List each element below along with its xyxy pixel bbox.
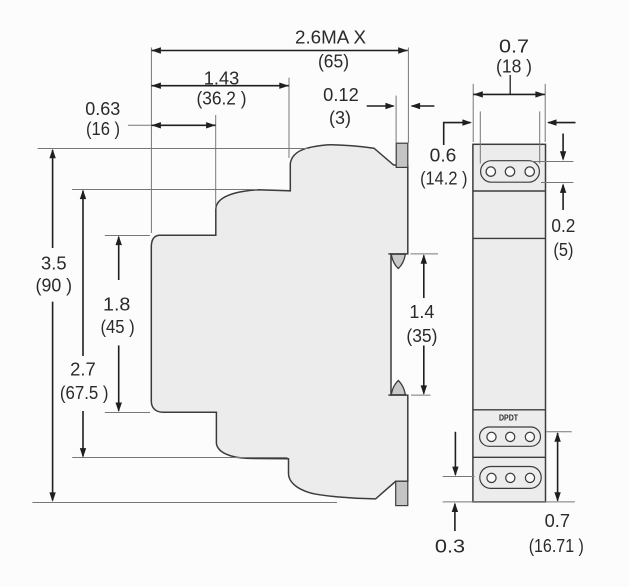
bottom DIN tab <box>396 481 408 505</box>
svg-text:3.5: 3.5 <box>41 254 67 274</box>
svg-text:(90 ): (90 ) <box>36 276 73 296</box>
extension line: side view left edge <box>150 48 152 234</box>
dimension 0.3 <box>454 432 456 475</box>
ref line: 0.2 bottom <box>541 182 574 184</box>
svg-text:(18 ): (18 ) <box>496 57 532 77</box>
extension line: 1.43 step <box>288 78 290 158</box>
svg-text:1.4: 1.4 <box>409 302 434 322</box>
extension line: side view right edge <box>407 48 409 144</box>
dimension 0.6 (14.2) leader <box>444 123 471 145</box>
svg-text:(16.71 ): (16.71 ) <box>529 536 584 556</box>
extension line: 0.63 step <box>215 115 217 209</box>
dimension 1.8 (45) <box>118 237 120 280</box>
svg-text:0.7: 0.7 <box>499 36 529 56</box>
svg-text:2.7: 2.7 <box>70 359 96 379</box>
ref line: overall bottom <box>32 502 337 504</box>
upper rail clip <box>391 254 405 268</box>
ref tick: 0.3 top <box>443 476 475 478</box>
dimension 1.4 (35) <box>423 255 425 298</box>
svg-text:0.7: 0.7 <box>545 511 570 531</box>
svg-text:1.8: 1.8 <box>103 295 130 315</box>
dimension 0.7 (18) <box>509 75 511 94</box>
DPDT upper block <box>480 427 541 446</box>
svg-text:0.3: 0.3 <box>435 537 465 557</box>
top terminal block <box>481 161 540 183</box>
svg-text:0.63: 0.63 <box>85 99 120 119</box>
svg-text:(16 ): (16 ) <box>86 119 120 139</box>
ref tick: 1.8 top <box>105 235 150 237</box>
side view body profile <box>151 145 408 499</box>
top DIN tab <box>396 143 408 167</box>
ref line: overall top (3.5 origin) <box>38 148 310 150</box>
dimension 0.63 <box>151 124 215 126</box>
DPDT lower block <box>480 467 541 489</box>
ref line: 2.7 bottom step <box>72 457 287 459</box>
svg-text:(67.5 ): (67.5 ) <box>60 383 109 403</box>
svg-text:(36.2 ): (36.2 ) <box>197 88 247 108</box>
ref tick: 1.4 bottom <box>411 394 431 396</box>
svg-text:(45 ): (45 ) <box>100 317 134 337</box>
svg-text:DPDT: DPDT <box>499 413 518 422</box>
front view body <box>473 144 546 502</box>
ref tick: 1.4 top <box>411 253 439 255</box>
dimension 3.5 (90) <box>52 150 54 248</box>
svg-text:(65): (65) <box>318 51 349 71</box>
ref line: 2.7 top step <box>72 189 258 191</box>
svg-text:(3): (3) <box>329 108 351 128</box>
dimension 0.2 (5) <box>562 134 564 160</box>
extension line: front view left edge <box>472 84 474 142</box>
svg-text:(14.2 ): (14.2 ) <box>420 168 467 188</box>
leader line: 0.63 label <box>128 124 151 126</box>
extension line: front view right edge <box>544 84 546 142</box>
svg-text:0.2: 0.2 <box>551 216 575 236</box>
ref tick: 0.7 (16.71) top <box>546 431 572 433</box>
dimension 0.12 <box>367 105 394 107</box>
ref line: front view bottom <box>443 501 575 503</box>
lower rail clip <box>391 381 405 395</box>
svg-text:0.6: 0.6 <box>430 146 457 166</box>
ref tick: 1.8 bottom <box>105 412 150 414</box>
extension line: terminal block left <box>479 111 481 163</box>
dimension 1.43 <box>151 85 288 87</box>
svg-text:0.12: 0.12 <box>323 85 359 105</box>
svg-text:1.43: 1.43 <box>204 68 240 88</box>
svg-text:(5): (5) <box>553 240 573 260</box>
ref line: 0.2 top <box>531 161 574 163</box>
svg-text:2.6MA X: 2.6MA X <box>295 27 366 47</box>
extension line: top tab left <box>395 96 397 143</box>
dimension 2.6MAX <box>151 50 407 52</box>
svg-text:(35): (35) <box>406 326 437 346</box>
dimension 2.7 (67.5) <box>82 191 84 356</box>
extension line: terminal block right <box>539 111 541 163</box>
dimension 0.7 (16.71) <box>557 433 559 501</box>
